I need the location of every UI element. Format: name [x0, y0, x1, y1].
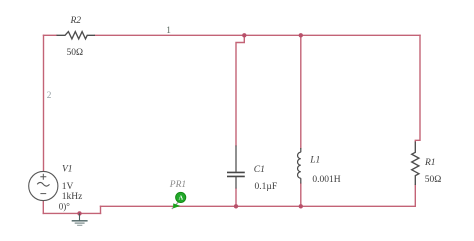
svg-text:L1: L1	[309, 156, 320, 166]
wire C1 bottom to rail	[235, 189, 237, 207]
svg-text:V1: V1	[62, 164, 73, 174]
wire top rail right of R2	[95, 34, 420, 36]
svg-text:50Ω: 50Ω	[67, 48, 84, 58]
svg-text:2: 2	[47, 91, 52, 101]
node A junction dot top (C1 tap)	[242, 33, 246, 37]
svg-text:1kHz: 1kHz	[62, 192, 83, 202]
node junction dot top (L1 tap)	[299, 33, 303, 37]
probe PR1	[172, 192, 186, 209]
svg-text:PR1: PR1	[169, 180, 186, 190]
wire L1 bottom to rail	[300, 184, 302, 207]
node junction dot ground	[77, 211, 81, 215]
wire left vertical (node 2)	[43, 35, 45, 171]
resistor R2 body	[57, 32, 96, 39]
wire C1 top jog from node	[236, 35, 244, 145]
ac source V1	[29, 171, 58, 200]
capacitor C1	[227, 146, 245, 189]
wire V1 bottom lead	[42, 201, 44, 214]
svg-text:R1: R1	[424, 158, 436, 168]
resistor R1 body	[412, 142, 419, 186]
svg-text:A: A	[179, 195, 184, 202]
svg-text:0.1µF: 0.1µF	[255, 182, 278, 192]
node junction dot bottom (L1)	[299, 204, 303, 208]
svg-text:0.001H: 0.001H	[312, 175, 340, 185]
wire bottom rail left segment	[43, 212, 100, 214]
svg-text:50Ω: 50Ω	[425, 175, 442, 185]
svg-text:1: 1	[166, 26, 171, 36]
inductor L1	[298, 148, 301, 184]
wire top rail left of R2	[44, 34, 57, 36]
ground	[72, 213, 88, 225]
wire L1 top	[300, 35, 302, 148]
node junction dot bottom (C1)	[234, 204, 238, 208]
wire right vertical from top rail	[415, 35, 420, 141]
wire bottom rail right segment	[101, 205, 416, 207]
svg-text:0)°: 0)°	[59, 201, 70, 211]
wire bottom step	[100, 206, 102, 213]
wire R1 bottom to rail	[414, 185, 416, 206]
svg-text:C1: C1	[254, 165, 265, 175]
svg-text:R2: R2	[70, 16, 82, 26]
svg-text:1V: 1V	[62, 182, 74, 192]
